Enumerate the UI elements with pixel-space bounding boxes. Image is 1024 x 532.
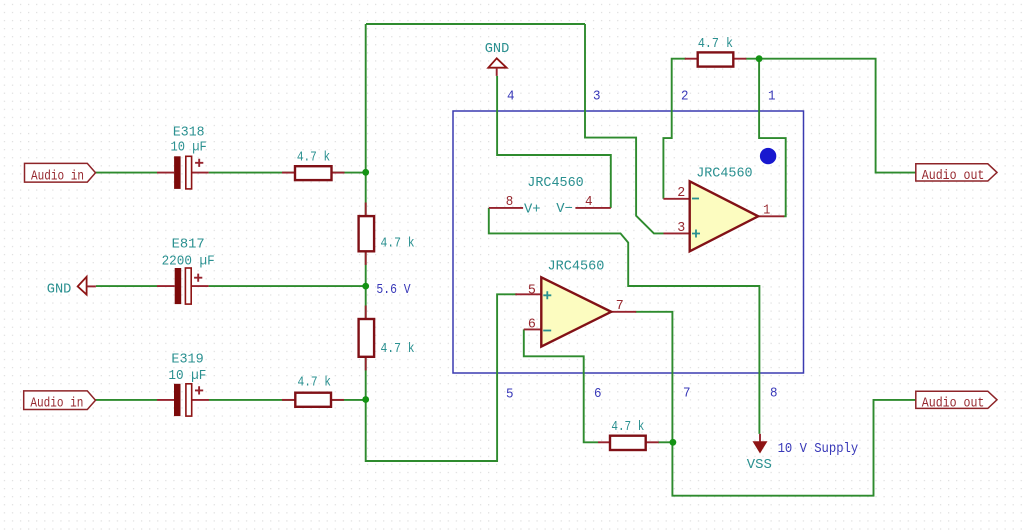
pin number U1A 3 [677,220,685,236]
svg-text:JRC4560: JRC4560 [696,166,752,182]
wire V+ pin8 to VSS rail [489,208,760,434]
pin stub U1A pin3 [664,232,690,234]
global label Audio out top [916,164,997,184]
op-amp U1A plus sign [692,230,700,238]
svg-text:GND: GND [485,41,510,57]
svg-text:8: 8 [770,385,778,401]
svg-text:2: 2 [681,89,689,105]
sheet pin 7 [683,385,691,401]
resistor R1 4.7k row1 [295,166,332,180]
wire pin3 net [585,24,664,233]
label VSS text [747,457,772,473]
label GND top text [485,41,510,57]
sheet pin 2 [681,89,689,105]
svg-text:4.7 k: 4.7 k [297,150,330,166]
wire output1 to audio out top [746,59,916,173]
pin stub C1 right [192,172,209,174]
label R4 value 4.7 k [298,374,332,390]
svg-text:Audio out: Audio out [922,168,985,184]
wire top rail [366,23,585,25]
junction row2 [362,283,369,290]
pin stub R5 left [685,58,698,60]
pin stub R6 right [646,441,659,443]
label C1 ref E318 [173,124,205,140]
svg-text:E318: E318 [173,124,205,140]
label R2 value 4.7 k [381,236,415,252]
pin stub U1A pin1 [758,215,784,217]
resistor R3 4.7k vertical lower [359,319,375,357]
svg-text:1: 1 [763,202,770,218]
pin stub R3 bottom [365,357,367,371]
junction row1 [362,169,369,176]
pin number U1B 5 [528,282,536,298]
pin name V- [556,201,573,217]
wire row1 after cap [209,172,366,174]
svg-text:7: 7 [616,298,624,314]
power GND left [78,277,96,295]
svg-text:5: 5 [528,282,536,298]
pin number U1A 2 [677,185,685,201]
capacitor C2 E817 [175,268,203,304]
pin name V+ [524,201,541,217]
wire output7 to audio out bottom [636,312,916,496]
svg-text:4.7 k: 4.7 k [698,36,733,52]
wire row1 audio in [96,172,158,174]
svg-text:8: 8 [506,194,514,210]
pin stub C2 right [190,285,208,287]
pin stub R2 top [365,203,367,217]
svg-text:4: 4 [507,89,515,105]
wire row3 audio in [96,399,158,401]
resistor R4 4.7k row3 [295,393,331,407]
wire left bus with resistor divider [366,24,517,461]
wire row2 after cap [209,285,366,287]
pin stub R1 left [282,172,295,174]
junction bottom resistor [670,439,677,446]
svg-text:V−: V− [556,201,573,217]
pin stub C3 right [193,399,210,401]
svg-text:4.7 k: 4.7 k [298,374,332,390]
wire pin6 net [524,329,598,442]
svg-text:6: 6 [528,316,536,332]
op-amp U1B [541,277,611,346]
svg-text:Audio in: Audio in [31,168,84,184]
svg-text:10 µF: 10 µF [168,368,206,384]
svg-text:1: 1 [768,89,776,105]
label R6 value 4.7 k [611,419,644,435]
pin number U1A 1 [763,202,770,218]
note 5.6 V [376,282,411,298]
label C1 value 10 uF [171,140,207,156]
pin number U1C 8 [506,194,514,210]
wire row2 gnd [96,285,157,287]
label C2 value 2200 uF [162,253,215,269]
svg-text:Audio out: Audio out [922,396,985,412]
junction row3 [362,396,369,403]
svg-text:E319: E319 [171,351,203,367]
power VSS [753,434,766,453]
label U1A JRC4560 [696,166,752,182]
pin stub U1B pin6 [524,328,542,330]
svg-text:4.7 k: 4.7 k [611,419,644,435]
pin stub R4 right [331,399,344,401]
op-amp U1A minus sign [692,198,699,200]
global label Audio in row3 [24,391,96,412]
op-amp U1B plus sign [543,291,551,299]
svg-text:3: 3 [593,89,601,105]
op-amp U1B minus sign [543,330,551,332]
pin number U1B 7 [616,298,624,314]
svg-text:Audio in: Audio in [30,396,83,412]
svg-text:6: 6 [594,386,602,402]
pin stub R1 right [332,172,345,174]
svg-text:JRC4560: JRC4560 [548,259,605,275]
svg-text:4.7 k: 4.7 k [381,236,415,252]
node marker blue dot [760,148,776,164]
pin stub R4 left [282,399,295,401]
sheet pin 4 [507,89,515,105]
pin stub U1C pin4 [575,207,610,209]
label R5 value 4.7 k [698,36,733,52]
sheet pin 1 [768,89,776,105]
label R3 value 4.7 k [381,341,415,357]
junction feedback top [756,55,763,62]
pin stub R6 left [598,441,610,443]
wire to pin2 inverting input [663,59,686,199]
sheet pin 3 [593,89,601,105]
svg-text:4.7 k: 4.7 k [381,341,415,357]
label C3 ref E319 [171,351,203,367]
svg-text:2200 µF: 2200 µF [162,253,215,269]
sheet box [453,111,804,373]
wire gnd to V- pin4 [497,76,611,208]
pin stub U1C pin8 [489,207,523,209]
pin stub R3 top [365,306,367,320]
pin number U1C 4 [585,194,593,210]
svg-text:5.6 V: 5.6 V [376,282,411,298]
capacitor C1 E318 [174,156,203,189]
pin stub U1B pin7 [611,311,636,313]
svg-text:JRC4560: JRC4560 [527,175,583,191]
svg-text:7: 7 [683,385,691,401]
pin stub C2 left [157,285,175,287]
svg-text:V+: V+ [524,201,541,217]
resistor R5 4.7k top right [698,52,734,66]
label GND left text [47,282,72,298]
pin stub C1 left [157,172,174,174]
svg-text:2: 2 [677,185,685,201]
svg-text:4: 4 [585,194,593,210]
pin stub U1A pin2 [663,198,689,200]
resistor R6 4.7k bottom [610,436,646,450]
global label Audio out bottom [916,391,997,411]
pin stub R5 right [733,58,746,60]
pin stub C3 left [157,399,174,401]
note 10 V Supply [778,441,859,457]
svg-text:VSS: VSS [747,457,772,473]
wire row3 after cap [209,399,366,401]
svg-text:10 V Supply: 10 V Supply [778,441,859,457]
label C2 ref E817 [172,236,205,252]
svg-text:5: 5 [506,387,514,403]
resistor R2 4.7k vertical upper [359,216,375,251]
pin number U1B 6 [528,316,536,332]
label C3 value 10 uF [168,368,206,384]
sheet pin 6 [594,386,602,402]
label U1C JRC4560 [527,175,583,191]
pin stub U1B pin5 [515,293,541,295]
global label Audio in row1 [25,163,96,184]
svg-text:E817: E817 [172,236,205,252]
op-amp U1A [690,181,759,251]
wire feedback U1A [759,59,786,217]
label R1 value 4.7 k [297,150,330,166]
svg-text:3: 3 [677,220,685,236]
pin stub R2 bottom [365,251,367,265]
svg-text:10 µF: 10 µF [171,140,207,156]
power GND top [488,58,506,76]
label U1B JRC4560 [548,259,605,275]
sheet pin 8 [770,385,778,401]
svg-text:GND: GND [47,282,72,298]
wire bottom resistor to junction [658,441,672,443]
capacitor C3 E319 [174,384,203,416]
sheet pin 5 [506,387,514,403]
